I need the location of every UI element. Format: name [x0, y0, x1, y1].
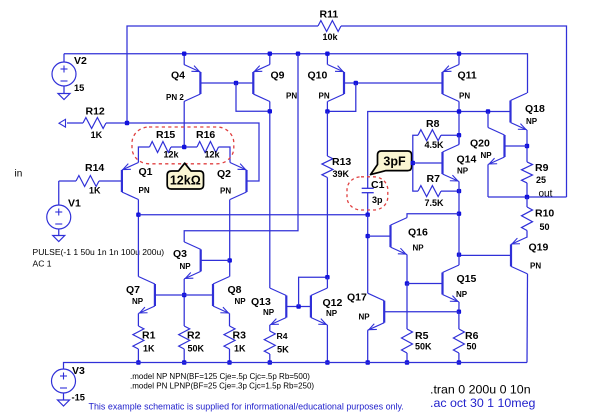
junction R2 / V- rail: [182, 360, 186, 364]
capacitor C1: [362, 188, 374, 192]
junction Q18 base rail / Q20 collector: [486, 109, 490, 113]
svg-text:Q7: Q7: [126, 284, 140, 296]
svg-text:PN: PN: [139, 186, 150, 195]
resistor R2: [179, 326, 190, 349]
resistor R13: [322, 156, 333, 178]
junction Q10 base tap: [354, 81, 358, 85]
svg-text:1K: 1K: [91, 130, 103, 140]
wire Q11 collector down to R8/Q14: [458, 102, 460, 145]
wire Q10-Q11 base link: [344, 82, 443, 84]
wire Q14 base pin: [413, 162, 443, 164]
svg-text:R7: R7: [427, 173, 441, 185]
annotation red dashed box around R15/R16: [132, 127, 234, 164]
svg-text:Q3: Q3: [173, 248, 187, 260]
svg-text:.ac oct 30 1 10meg: .ac oct 30 1 10meg: [430, 396, 535, 410]
svg-text:R13: R13: [332, 156, 351, 168]
wire Q1 collector down to Q7 collector: [137, 200, 139, 277]
wire Q1 emitter to R15: [138, 147, 149, 163]
wire V+ rail to Q18 collector: [64, 54, 528, 93]
junction Q7/Q8 base rail: [182, 293, 186, 297]
transistor Q1 (PNP): [122, 163, 138, 200]
annotation 12k-ohm callout: [167, 163, 203, 189]
wire Q10 emitter pin: [326, 54, 328, 65]
svg-text:50K: 50K: [188, 344, 205, 354]
junction R15/R16 mid / Q4 collector: [182, 145, 186, 149]
junction R5 / V- rail: [405, 360, 409, 364]
wire R7 right lead: [441, 190, 459, 192]
svg-text:NP: NP: [526, 117, 538, 126]
svg-text:1K: 1K: [143, 344, 155, 354]
wire R13 top lead: [326, 111, 328, 156]
wire Q3 base pin: [201, 259, 230, 261]
transistor Q16 (NPN): [391, 218, 408, 255]
wire V2 bottom stem: [63, 86, 65, 94]
wire Q9 collector down to Q13 collector: [269, 102, 271, 289]
wire Q7-Q8 base rail: [155, 294, 213, 296]
svg-text:Q4: Q4: [171, 70, 185, 82]
svg-text:-15: -15: [72, 393, 85, 403]
ground V2: [58, 94, 70, 100]
wire V1 top stem: [58, 181, 60, 205]
junction R8 / Q11 collector / Q14 collector: [457, 133, 461, 137]
svg-text:Q18: Q18: [525, 103, 545, 115]
svg-text:Q2: Q2: [217, 168, 231, 180]
wire R8/R7 left side: [413, 135, 418, 191]
svg-text:R2: R2: [187, 330, 201, 342]
transistor Q10 (PNP): [328, 65, 345, 102]
svg-text:Q16: Q16: [408, 227, 428, 239]
svg-text:5K: 5K: [277, 345, 289, 355]
wire Q20 collector pin: [487, 112, 489, 128]
transistor Q9 (PNP): [253, 65, 269, 102]
svg-text:Q8: Q8: [228, 284, 242, 296]
wire Q16 collector link: [407, 214, 459, 218]
voltage source V2: [52, 62, 76, 86]
svg-text:Q12: Q12: [323, 297, 343, 309]
junction Q20 base: [525, 144, 529, 148]
svg-text:R3: R3: [233, 330, 247, 342]
svg-text:7.5K: 7.5K: [425, 198, 445, 208]
junction Q9 emitter on V+ rail: [268, 52, 272, 56]
transistor Q2 (PNP): [230, 163, 247, 200]
junction Q16 collector: [457, 212, 461, 216]
wire R16 to Q2 emitter: [219, 147, 231, 163]
junction Q12 base tie: [296, 304, 300, 308]
svg-text:1K: 1K: [234, 344, 246, 354]
transistor Q18 (NPN): [511, 93, 528, 130]
svg-text:PN: PN: [220, 187, 231, 196]
wire Q18 emitter to R9: [526, 130, 528, 162]
wire R9 bottom lead: [526, 183, 528, 197]
annotation red dashed ellipse around C1: [347, 177, 388, 210]
wire R1 bottom lead: [137, 349, 139, 363]
wire out rail: [488, 196, 567, 198]
svg-text:.tran 0 200u 0 10n: .tran 0 200u 0 10n: [430, 383, 531, 397]
wire Q17 emitter to V- rail: [367, 330, 369, 362]
junction R6 / V- rail: [457, 360, 461, 364]
svg-text:25: 25: [536, 175, 546, 185]
svg-text:R11: R11: [320, 9, 339, 21]
svg-text:PN: PN: [459, 92, 470, 101]
wire V3 bottom stem: [63, 393, 65, 400]
svg-text:50: 50: [467, 342, 477, 352]
transistor Q4 (PNP): [184, 65, 201, 102]
svg-text:3pF: 3pF: [383, 155, 406, 169]
wire mid rail to C1 bottom: [138, 214, 367, 216]
pin arrow R12 left: [59, 119, 66, 127]
resistor R7: [418, 186, 441, 197]
junction Q10 collector / R13 top: [325, 109, 329, 113]
wire Q19 collector down: [526, 274, 529, 363]
ground V3: [58, 400, 70, 406]
wire R10 top lead: [526, 197, 528, 207]
junction R11 leg / R12: [125, 121, 129, 125]
junction Q15 emitter / R6 / Q17 base: [457, 310, 461, 314]
wire V2 top stem: [63, 54, 65, 62]
svg-text:R15: R15: [156, 129, 175, 141]
junction Q14 base: [411, 161, 415, 165]
svg-text:15: 15: [74, 83, 84, 93]
svg-text:NP: NP: [456, 290, 468, 299]
svg-text:Q11: Q11: [458, 70, 477, 82]
svg-text:.model PN LPNP(BF=25 Cje=.3p C: .model PN LPNP(BF=25 Cje=.3p Cjc=1.5p Rb…: [130, 382, 314, 391]
svg-text:out: out: [539, 189, 553, 200]
svg-text:PN 2: PN 2: [166, 93, 184, 102]
resistor R15: [150, 142, 172, 153]
wire Q15 emitter pin: [458, 302, 460, 312]
svg-text:Q19: Q19: [529, 242, 549, 254]
wire Q7 emitter to R1: [137, 314, 139, 327]
wire Q14 collector pin: [458, 135, 460, 144]
svg-text:12k: 12k: [164, 150, 180, 160]
svg-text:PN: PN: [319, 92, 330, 101]
svg-text:C1: C1: [371, 179, 385, 191]
resistor R6: [453, 329, 464, 353]
junction Q3 collector riser on V+ rail: [296, 52, 300, 56]
wire C1 bottom lead: [367, 193, 369, 215]
wire R3 bottom lead: [229, 349, 231, 363]
wire R11 right lead + right leg to out: [341, 26, 567, 197]
resistor R4: [264, 331, 275, 354]
annotation 3pF callout: [371, 151, 412, 175]
junction Q10 emitter on V+ rail: [325, 52, 329, 56]
wire Q19 base pin: [459, 254, 511, 256]
junction Q18 base rail / Q11 collector: [457, 109, 461, 113]
wire Q4-Q9 base link: [200, 82, 253, 84]
svg-text:R6: R6: [465, 330, 479, 342]
svg-text:PULSE(-1 1 50u 1n 1n 100u 200u: PULSE(-1 1 50u 1n 1n 100u 200u): [33, 247, 165, 257]
junction R9/R10/out: [525, 195, 529, 199]
wire R6 bottom lead: [458, 353, 460, 363]
wire V1 bottom stem: [58, 229, 60, 236]
wire Q4 emitter pin: [183, 54, 185, 65]
transistor Q13 (NPN): [270, 288, 287, 325]
svg-text:50K: 50K: [415, 342, 432, 352]
resistor R3: [224, 326, 235, 349]
svg-text:1K: 1K: [89, 186, 101, 196]
svg-text:PN: PN: [530, 262, 541, 271]
wire R5 bottom lead: [406, 353, 408, 363]
transistor Q7 (NPN): [138, 277, 155, 314]
junction Q19 base / right column: [457, 253, 461, 257]
wire Q3 collector to V+ rail: [184, 54, 298, 242]
svg-text:V1: V1: [68, 198, 81, 210]
junction base tie Q4/Q9: [234, 81, 238, 85]
wire Q12 emitter to V- rail: [326, 325, 328, 363]
svg-text:NP: NP: [180, 262, 192, 271]
svg-text:R10: R10: [535, 208, 554, 220]
wire V- rail: [64, 363, 528, 370]
svg-text:R4: R4: [277, 331, 288, 341]
wire Q13 emitter to R4: [269, 325, 271, 331]
svg-text:NP: NP: [481, 151, 493, 160]
svg-text:R1: R1: [142, 330, 156, 342]
wire Q9 emitter pin: [269, 54, 271, 65]
wire R5 top lead: [406, 284, 408, 330]
junction R3 / V- rail: [227, 360, 231, 364]
svg-text:Q13: Q13: [251, 296, 271, 308]
wire Q2 collector down to Q8 collector: [229, 200, 231, 277]
svg-text:V3: V3: [72, 365, 85, 377]
wire Q8 emitter to R3: [229, 314, 231, 327]
wire R10 bottom lead: [526, 231, 528, 238]
svg-text:V2: V2: [74, 55, 87, 67]
resistor R9: [522, 162, 533, 183]
transistor Q17 (NPN): [368, 293, 385, 330]
wire R11 left lead + left leg: [127, 26, 318, 123]
wire C1 to Q16 base / Q17 collector: [367, 215, 369, 294]
svg-text:R14: R14: [85, 162, 104, 174]
svg-text:in: in: [15, 169, 23, 180]
junction Q11 emitter on V+ rail: [457, 52, 461, 56]
wire Q4 collector to R15/R16 mid: [183, 102, 185, 148]
junction Q9 collector tie: [268, 109, 272, 113]
svg-text:PN: PN: [286, 92, 297, 101]
voltage source V3: [52, 369, 76, 393]
transistor Q12 (NPN): [311, 288, 328, 325]
junction Q3 base tie: [228, 258, 232, 262]
svg-text:AC 1: AC 1: [33, 259, 52, 269]
junction Q17 emitter / V- rail: [366, 360, 370, 364]
wire Q20 base pin: [505, 145, 528, 147]
wire Q9 base-collector tie: [236, 83, 270, 111]
junction C1 / mid rail: [366, 213, 370, 217]
wire R6 top lead: [458, 312, 460, 329]
junction R4 / V- rail: [268, 360, 272, 364]
wire R14 to Q1 base: [99, 180, 122, 182]
transistor Q8 (NPN): [213, 277, 230, 314]
svg-text:50: 50: [540, 222, 550, 232]
wire Q18 base rail / C1 top: [368, 112, 511, 189]
svg-text:Q10: Q10: [308, 70, 328, 82]
wire Q16 base pin: [368, 235, 391, 237]
resistor R10: [522, 207, 533, 231]
transistor Q11 (PNP): [443, 65, 460, 102]
svg-text:12kΩ: 12kΩ: [170, 173, 201, 187]
svg-text:.model NP NPN(BF=125 Cje=.5p C: .model NP NPN(BF=125 Cje=.5p Cjc=.5p Rb=…: [130, 372, 310, 381]
junction Q12 emitter / V- rail: [325, 360, 329, 364]
transistor Q20 (NPN): [488, 128, 505, 165]
wire Q12 base-collector tie: [299, 277, 328, 306]
wire Q16 emitter to R5: [406, 255, 408, 284]
wire right column R7 to Q15 collector: [458, 191, 460, 265]
wire Q14 emitter pin: [458, 182, 460, 192]
svg-text:Q17: Q17: [347, 292, 367, 304]
wire R2 bottom lead: [183, 349, 185, 363]
resistor R8: [418, 130, 441, 141]
wire Q17 base pin to R6 top: [384, 311, 459, 313]
transistor Q15 (NPN): [443, 265, 460, 302]
wire R12 to Q2 base (rail A): [106, 123, 259, 181]
svg-text:Q9: Q9: [271, 70, 285, 82]
resistor R5: [402, 329, 413, 353]
svg-text:NP: NP: [263, 308, 275, 317]
wire Q11 emitter pin: [458, 54, 460, 65]
wire R8 right lead: [441, 134, 459, 136]
junction Q16 base tie: [366, 234, 370, 238]
svg-text:Q15: Q15: [457, 273, 477, 285]
svg-text:39K: 39K: [333, 169, 350, 179]
ground V1: [53, 236, 65, 242]
svg-text:R9: R9: [535, 162, 549, 174]
resistor R16: [197, 142, 219, 153]
svg-text:Q20: Q20: [470, 138, 490, 150]
wire Q10 collector pin: [326, 102, 328, 112]
svg-text:NP: NP: [359, 313, 371, 322]
resistor R11: [318, 21, 341, 32]
wire R13 bottom lead to Q12 collector: [326, 178, 328, 278]
wire Q3 emitter down to R2: [183, 279, 185, 326]
transistor Q3 (NPN): [184, 242, 201, 279]
wire R14 left lead: [59, 180, 76, 182]
transistor Q19 (PNP): [511, 237, 528, 274]
wire Q13-Q12 base rail: [286, 306, 311, 308]
svg-text:12k: 12k: [205, 150, 221, 160]
transistor Q14 (NPN): [443, 145, 460, 182]
svg-text:R12: R12: [86, 106, 105, 118]
wire R4 bottom lead: [269, 354, 271, 363]
svg-text:10k: 10k: [323, 32, 339, 42]
junction R1 / V- rail: [136, 360, 140, 364]
wire Q10 base-collector tie: [327, 83, 355, 111]
svg-text:3p: 3p: [372, 195, 383, 205]
wire R15-R16 mid: [171, 146, 197, 148]
wire Q20 emitter down to out rail: [487, 165, 489, 198]
svg-text:This example schematic is supp: This example schematic is supplied for i…: [89, 402, 404, 412]
wire Q15 base pin: [407, 283, 443, 285]
svg-text:NP: NP: [457, 167, 469, 176]
svg-text:4.5K: 4.5K: [425, 140, 445, 150]
svg-text:R8: R8: [426, 118, 440, 130]
junction Q1 collector / mid rail: [136, 213, 140, 217]
wire Q12 collector pin: [326, 277, 328, 288]
junction R7 / Q14 emitter: [457, 189, 461, 193]
svg-text:Q1: Q1: [139, 166, 153, 178]
junction Q4 emitter on V+ rail: [182, 52, 186, 56]
resistor R14: [76, 176, 99, 187]
voltage source V1: [47, 205, 71, 229]
wire R12 left lead: [67, 122, 83, 124]
resistor R1: [133, 326, 144, 349]
resistor R12: [83, 118, 106, 129]
svg-text:R5: R5: [415, 330, 429, 342]
svg-text:NP: NP: [326, 309, 338, 318]
svg-text:NP: NP: [235, 297, 247, 306]
svg-text:NP: NP: [413, 244, 425, 253]
junction Q15 base / R5: [405, 281, 409, 285]
junction R13 bottom / Q12 collector: [325, 275, 329, 279]
svg-text:R16: R16: [196, 129, 215, 141]
svg-text:Q14: Q14: [457, 154, 477, 166]
svg-text:NP: NP: [132, 297, 144, 306]
